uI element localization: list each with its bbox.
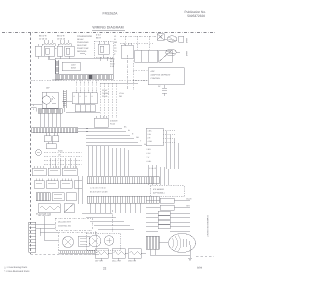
wire top fold separator <box>2 32 216 34</box>
svg-text:S: S <box>86 95 88 98</box>
freezer lamp L1 <box>167 36 177 42</box>
overload protector A2 <box>44 46 55 56</box>
fresh food lamp L2 <box>166 49 176 56</box>
svg-text:BK W R: BK W R <box>57 35 65 38</box>
wire leads group B <box>60 40 68 43</box>
svg-text:PLUG: PLUG <box>110 123 116 126</box>
wire link row 2 <box>146 217 190 219</box>
legend triangle line <box>4 266 30 273</box>
heater labels <box>95 260 137 263</box>
svg-text:OVERLOAD: OVERLOAD <box>77 41 89 44</box>
svg-text:TIMER MTR: TIMER MTR <box>52 79 63 82</box>
run winding coil B <box>58 43 72 46</box>
svg-text:HTR: HTR <box>186 205 190 208</box>
svg-text:RUN CAP: RUN CAP <box>77 44 87 47</box>
svg-text:5 6 2: 5 6 2 <box>96 34 101 37</box>
svg-text:* = Non-Illustrated Parts: * = Non-Illustrated Parts <box>4 270 30 273</box>
harness label block <box>110 58 114 69</box>
cabinet wiring channel outline <box>55 58 113 75</box>
wire dotted verticals <box>76 81 96 93</box>
condenser fan shroud box dash-dot <box>58 232 96 254</box>
door switch 2 <box>159 50 173 62</box>
wire verticals to terminal bar <box>88 146 128 176</box>
svg-text:1 2 3 4 5 6 7 8 9 10: 1 2 3 4 5 6 7 8 9 10 <box>90 187 106 190</box>
wire <box>60 56 69 59</box>
svg-text:4: 4 <box>33 104 34 107</box>
wire <box>102 55 104 58</box>
svg-text:COMPRESSOR: COMPRESSOR <box>77 35 93 38</box>
wire verticals right cluster <box>148 165 168 185</box>
splice connectors stack <box>44 136 51 142</box>
svg-text:ICEMKR: ICEMKR <box>110 120 118 123</box>
svg-text:3 R: 3 R <box>148 137 151 140</box>
vertical ladder right of timer <box>63 90 66 108</box>
drain heater link <box>146 207 190 209</box>
wire drops to connector row <box>50 158 75 168</box>
svg-text:△ = Functioning Parts: △ = Functioning Parts <box>4 266 28 269</box>
wire label <box>186 198 192 201</box>
heater H2 <box>112 249 125 259</box>
svg-text:COMPRESSOR CIRCUIT: COMPRESSOR CIRCUIT <box>206 215 209 238</box>
svg-text:60HZ: 60HZ <box>71 67 77 70</box>
wire dashed leads from list box <box>163 131 176 143</box>
svg-text:C: C <box>114 53 116 56</box>
svg-text:S: S <box>92 95 94 98</box>
cam switch symbol <box>51 98 53 102</box>
wire bus lines <box>78 129 88 132</box>
power supply box <box>62 62 80 71</box>
svg-text:(OPTIONAL): (OPTIONAL) <box>153 192 165 195</box>
wire <box>31 80 147 82</box>
wire dotted leads to board <box>133 70 148 80</box>
svg-text:BK W R OR Y GN BR: BK W R OR Y GN BR <box>90 191 108 194</box>
connector block P4 <box>34 181 44 189</box>
wire leads group A <box>44 40 52 43</box>
wire left fold border <box>30 33 32 254</box>
start relay U1 <box>98 44 109 54</box>
condenser fan motor M2 <box>63 237 74 248</box>
water valve link <box>146 200 190 202</box>
connector block P8 hatched <box>36 193 50 201</box>
comb bar under fan <box>59 251 95 254</box>
compartment dash-dot vertical <box>111 210 113 232</box>
connector block P7 <box>74 181 82 189</box>
terminal board EOBD upper comb <box>87 177 159 184</box>
wire link row 1 <box>146 212 190 214</box>
multi-pin ladder connector J1 <box>56 60 59 74</box>
switch bank row <box>72 93 97 104</box>
svg-text:5 BR: 5 BR <box>147 148 152 151</box>
svg-text:BK W R OR Y GN: BK W R OR Y GN <box>36 213 52 216</box>
svg-text:4 OR: 4 OR <box>148 140 153 143</box>
evaporator fan housing dashed <box>86 233 120 250</box>
wire dotted rows with labels <box>44 151 82 153</box>
wire harness dotted <box>120 35 157 37</box>
svg-text:N: N <box>114 38 116 41</box>
heater H1 <box>95 249 108 259</box>
wire <box>99 41 108 61</box>
wire dotted verticals mid <box>100 83 116 118</box>
svg-text:CONT: CONT <box>102 89 108 92</box>
mullion thermostat <box>36 150 42 156</box>
connector block P3 <box>62 168 77 176</box>
svg-text:Y: Y <box>140 139 142 142</box>
svg-text:T3: T3 <box>114 50 117 53</box>
ice maker box dashed <box>150 186 184 197</box>
compressor vertical label <box>206 215 209 238</box>
evaporator fan motor labels <box>39 35 48 41</box>
svg-text:115V: 115V <box>71 64 76 67</box>
svg-text:W-BK: W-BK <box>58 149 63 152</box>
wire links between heaters <box>101 253 146 261</box>
svg-text:R: R <box>132 132 134 135</box>
main harness bus bar <box>32 128 78 133</box>
svg-text:OR: OR <box>119 95 122 98</box>
compressor shell <box>169 234 196 253</box>
svg-text:22: 22 <box>103 267 107 271</box>
run capacitor C1 <box>146 236 159 249</box>
evaporator fan motor M1 <box>89 235 101 247</box>
svg-text:BK: BK <box>124 125 127 128</box>
svg-text:L1: L1 <box>114 35 117 38</box>
door switch assembly <box>135 50 158 62</box>
defrost timer box <box>42 92 58 108</box>
wire <box>80 53 86 55</box>
svg-text:2 W: 2 W <box>148 133 151 136</box>
svg-text:T: T <box>58 161 60 164</box>
light switch S1 <box>121 45 133 58</box>
svg-text:W: W <box>128 129 130 132</box>
wire link row 5 <box>146 230 190 232</box>
svg-text:OR: OR <box>58 153 61 156</box>
svg-text:OR: OR <box>136 136 139 139</box>
harness staircase wires <box>86 128 142 146</box>
svg-text:T1: T1 <box>114 44 117 47</box>
relay box B1 <box>57 46 63 56</box>
overload protector B2 <box>65 46 75 56</box>
connector block P5 <box>46 181 58 189</box>
timer label <box>46 79 63 90</box>
terminal board EOBD lower comb <box>87 196 159 203</box>
svg-text:START CAP: START CAP <box>77 47 89 50</box>
adaptive defrost control board <box>148 68 184 85</box>
aux switch cells <box>75 105 95 112</box>
svg-text:BK R: BK R <box>96 37 101 40</box>
connector block P2 <box>48 168 60 176</box>
svg-text:LAMP: LAMP <box>185 51 188 57</box>
svg-text:8/94: 8/94 <box>197 267 203 270</box>
svg-text:Y: Y <box>58 157 60 160</box>
svg-text:1 2 3 4 5: 1 2 3 4 5 <box>149 167 156 170</box>
svg-text:LT BL: LT BL <box>119 92 124 95</box>
svg-text:6 GY: 6 GY <box>147 152 152 155</box>
svg-text:DT: DT <box>158 85 161 88</box>
wire drops below lower board <box>90 203 140 213</box>
wire labels left <box>33 104 34 111</box>
terminal labels column <box>114 35 118 56</box>
defrost limit switch <box>64 204 74 213</box>
timer connector comb <box>38 109 62 114</box>
svg-text:MULL HTR: MULL HTR <box>112 260 122 263</box>
bottom boundary dashes <box>31 253 101 255</box>
svg-text:ICE MAKER: ICE MAKER <box>153 188 165 191</box>
wire <box>78 176 82 204</box>
svg-text:10 13 15: 10 13 15 <box>57 37 66 40</box>
condenser fan motor labels <box>57 35 66 41</box>
svg-text:RELAY: RELAY <box>77 38 84 41</box>
svg-text:7 V: 7 V <box>147 156 150 159</box>
timer motor M3 <box>42 96 50 104</box>
svg-text:CONTROL: CONTROL <box>151 77 162 80</box>
wire <box>31 104 42 112</box>
start relay labels <box>96 34 101 40</box>
wire link row 4 <box>146 226 190 228</box>
wire <box>38 44 57 59</box>
svg-text:CONTROL SW: CONTROL SW <box>58 225 71 228</box>
ground terminal (filled) <box>89 75 93 80</box>
connector block P6 <box>60 181 72 189</box>
mullion heater box dash-dot <box>55 218 92 230</box>
cabinet side connector <box>29 222 36 252</box>
wire color legend row <box>36 213 52 216</box>
svg-text:R 12: R 12 <box>110 65 114 68</box>
svg-text:GR: GR <box>114 41 118 44</box>
wire <box>62 101 100 112</box>
wire label rows under list box <box>147 148 152 163</box>
parts list text column <box>77 35 93 53</box>
svg-text:BK W R: BK W R <box>39 35 47 38</box>
svg-text:S: S <box>74 95 76 98</box>
svg-text:8 LBL: 8 LBL <box>147 160 152 163</box>
start relay outer (dashed) <box>94 41 113 57</box>
fan capacitor <box>78 236 89 246</box>
compressor windings <box>183 239 189 247</box>
svg-text:GROUND: GROUND <box>77 50 87 53</box>
terminal list box <box>146 128 163 146</box>
label row <box>38 214 52 217</box>
svg-text:DRN HTR: DRN HTR <box>128 260 137 263</box>
wire stepped harness <box>82 213 134 229</box>
svg-text:VALVE: VALVE <box>186 198 192 201</box>
ground symbol <box>188 255 192 260</box>
heater H3 <box>128 249 141 259</box>
wire link row 3 <box>146 221 190 223</box>
svg-text:ADC: ADC <box>151 70 156 73</box>
svg-text:2: 2 <box>33 108 34 111</box>
defrost heater <box>38 204 60 213</box>
pin number rows <box>90 187 108 194</box>
connector block P9 <box>52 193 64 201</box>
svg-text:COLD: COLD <box>102 95 108 98</box>
run winding coil A <box>42 43 56 46</box>
control thermostat labels <box>102 89 124 98</box>
svg-text:S: S <box>80 95 82 98</box>
svg-text:FRS26ZA: FRS26ZA <box>103 12 119 16</box>
svg-text:T2: T2 <box>114 47 117 50</box>
run capacitor motor <box>104 236 114 246</box>
svg-text:MULLION HTR: MULLION HTR <box>58 221 71 224</box>
svg-text:DEF: DEF <box>46 87 51 90</box>
lamp labels vertical <box>185 38 188 57</box>
compartment boundary dash-dot <box>127 55 129 90</box>
wire <box>150 242 196 255</box>
relay box A1 <box>35 46 42 56</box>
wire drops from timer <box>40 113 60 127</box>
svg-text:5995372320: 5995372320 <box>187 14 205 18</box>
wire <box>38 56 55 60</box>
svg-text:LAMP: LAMP <box>185 38 188 44</box>
icemaker plug <box>94 118 108 127</box>
wire verticals right <box>166 131 178 169</box>
interlock plug (crossed box) <box>157 34 164 41</box>
defrost thermostat <box>162 85 167 96</box>
terminal strip comb (hatched bar) <box>55 75 113 80</box>
svg-text:DEF HTR: DEF HTR <box>95 260 103 263</box>
connector block P10 <box>66 193 76 201</box>
svg-text:1 BK: 1 BK <box>148 130 153 133</box>
svg-text:ADAPTIVE DEFROST: ADAPTIVE DEFROST <box>151 74 172 77</box>
svg-text:12 10 14: 12 10 14 <box>39 37 48 40</box>
svg-text:WIRING DIAGRAM: WIRING DIAGRAM <box>92 26 123 30</box>
wire <box>36 216 59 240</box>
pin tick labels <box>149 167 156 170</box>
connector block P1 <box>32 168 46 176</box>
